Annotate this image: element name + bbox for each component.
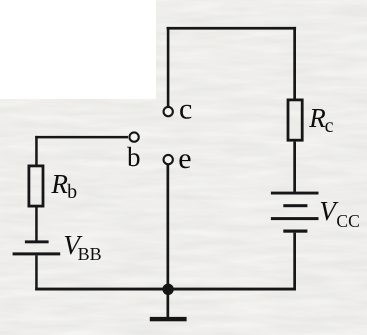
svg-text:R: R <box>50 169 68 199</box>
svg-text:b: b <box>67 181 77 203</box>
svg-text:c: c <box>325 115 334 137</box>
svg-text:c: c <box>179 93 192 126</box>
svg-text:BB: BB <box>78 244 102 264</box>
svg-text:R: R <box>308 103 326 133</box>
svg-text:b: b <box>127 142 141 172</box>
svg-text:e: e <box>178 142 191 175</box>
svg-text:CC: CC <box>336 211 359 231</box>
